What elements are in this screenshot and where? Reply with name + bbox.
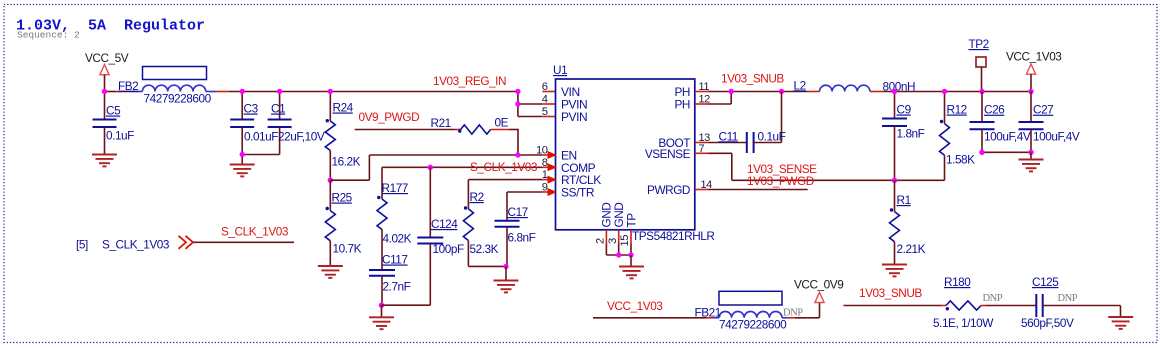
svg-text:1.8nF: 1.8nF <box>897 127 925 141</box>
net label S_CLK_1V03 on wire <box>221 225 289 239</box>
capacitor C27 <box>1019 92 1080 153</box>
subtitle sequence 2 <box>17 30 80 41</box>
wire snub to C11 <box>781 92 783 143</box>
capacitor C1 <box>268 92 325 155</box>
ferrite bead FB21 <box>695 291 804 331</box>
svg-text:1: 1 <box>542 169 548 181</box>
wire C3-C1 bottoms <box>242 154 279 156</box>
svg-text:R25: R25 <box>332 191 353 205</box>
svg-text:1V03_REG_IN: 1V03_REG_IN <box>433 74 506 88</box>
net label 1V03_PWGD <box>747 174 814 188</box>
wire 0V9_PWGD to R21 <box>355 129 456 131</box>
junction R24 top <box>328 89 333 94</box>
svg-text:R177: R177 <box>382 181 408 195</box>
net label 1V03_SNUB top <box>721 72 784 86</box>
svg-text:PVIN: PVIN <box>561 110 587 124</box>
junction PH <box>729 89 734 94</box>
svg-text:C27: C27 <box>1033 103 1053 117</box>
svg-text:52.3K: 52.3K <box>470 242 499 256</box>
ground for C5 <box>92 155 117 167</box>
svg-text:8: 8 <box>542 157 548 169</box>
net label 1V03_REG_IN <box>433 74 506 88</box>
resistor R180 <box>933 275 1003 330</box>
junction pin15 <box>628 252 633 257</box>
wire snub to R180 <box>844 305 942 307</box>
net label 0V9_PWGD <box>359 110 420 124</box>
power VCC_0V9 <box>794 278 843 303</box>
svg-text:15: 15 <box>619 235 631 247</box>
ground for R2 C17 <box>494 266 519 292</box>
svg-text:C117: C117 <box>382 253 408 267</box>
svg-text:VCC_1V03: VCC_1V03 <box>607 299 663 313</box>
wire VCC_1V03 to FB21 <box>593 317 706 319</box>
svg-text:Sequence: 2: Sequence: 2 <box>17 30 80 41</box>
svg-text:R21: R21 <box>431 116 451 130</box>
svg-text:800nH: 800nH <box>883 79 916 93</box>
svg-text:U1: U1 <box>553 63 567 77</box>
svg-text:R24: R24 <box>333 101 354 115</box>
svg-text:R12: R12 <box>947 103 967 117</box>
inductor L2 <box>794 78 1032 93</box>
svg-text:560pF,50V: 560pF,50V <box>1021 316 1074 330</box>
wire S_CLK_1V03 <box>193 241 294 243</box>
svg-text:9: 9 <box>542 182 548 194</box>
svg-text:1.58K: 1.58K <box>946 153 975 167</box>
svg-text:VCC_1V03: VCC_1V03 <box>1006 50 1062 64</box>
wire VSENSE net <box>695 153 945 180</box>
net label VCC_1V03 bottom <box>607 299 663 313</box>
capacitor C9 <box>882 92 925 181</box>
junction C27 bottom <box>1028 150 1033 155</box>
svg-text:R1: R1 <box>897 193 911 207</box>
svg-text:VCC_5V: VCC_5V <box>85 51 129 65</box>
junction C9 top <box>892 89 897 94</box>
junction VSENSE-C9-R1 <box>892 178 897 183</box>
wire C26-C27 bottoms <box>982 151 1031 153</box>
svg-text:2.21K: 2.21K <box>897 242 926 256</box>
svg-text:C1: C1 <box>271 102 285 116</box>
svg-text:R2: R2 <box>470 190 484 204</box>
svg-text:FB2: FB2 <box>118 79 138 93</box>
capacitor C124 <box>382 167 464 305</box>
svg-text:DNP: DNP <box>783 308 803 319</box>
U1 pin numbers bottom <box>595 235 632 247</box>
ground for R25 <box>318 266 343 278</box>
junction C117 bottom <box>379 303 384 308</box>
svg-text:PWRGD: PWRGD <box>647 183 690 197</box>
junction TP2-C26 <box>979 89 984 94</box>
junction PVIN <box>515 101 520 106</box>
svg-text:0.1uF: 0.1uF <box>758 129 786 143</box>
svg-text:C11: C11 <box>719 129 738 143</box>
net label 1V03_SNUB bottom <box>859 286 922 300</box>
resistor R177 <box>377 181 412 270</box>
svg-text:22uF,10V: 22uF,10V <box>278 130 325 144</box>
test point TP2 <box>969 37 989 92</box>
resistor R24 <box>325 92 360 181</box>
wire COMP net <box>382 167 551 194</box>
U1 pin numbers right <box>699 81 713 191</box>
svg-text:FB21: FB21 <box>695 306 721 320</box>
title <box>16 18 205 35</box>
wire R180 to C125 <box>986 305 1036 307</box>
svg-text:C5: C5 <box>106 104 121 118</box>
svg-text:L2: L2 <box>794 78 806 92</box>
svg-text:C26: C26 <box>984 103 1005 117</box>
ground for C117 <box>369 305 394 329</box>
wire PWRGD net <box>695 189 808 191</box>
svg-text:1V03_PWGD: 1V03_PWGD <box>747 174 814 188</box>
svg-text:VSENSE: VSENSE <box>645 147 691 161</box>
svg-text:0.1uF: 0.1uF <box>106 129 134 143</box>
U1 left pin names <box>561 85 601 200</box>
junction C17 bottom <box>503 264 508 269</box>
capacitor C5 <box>93 92 135 155</box>
power VCC_1V03 <box>1006 50 1062 92</box>
svg-text:100uF,4V: 100uF,4V <box>984 130 1031 144</box>
wire R21 to EN <box>517 130 519 156</box>
svg-text:SS/TR: SS/TR <box>561 186 595 200</box>
resistor R1 <box>890 180 926 264</box>
capacitor C26 <box>970 92 1031 153</box>
wire U1 bottom pins <box>606 230 631 255</box>
wire PH pins <box>695 92 808 105</box>
wire VIN branch verticals <box>518 92 556 117</box>
wire SS/TR net <box>507 192 551 220</box>
svg-text:S_CLK_1V03: S_CLK_1V03 <box>102 238 170 252</box>
svg-text:S_CLK_1V03: S_CLK_1V03 <box>470 160 538 174</box>
svg-text:4.02K: 4.02K <box>383 232 412 246</box>
svg-text:74279228600: 74279228600 <box>719 318 787 332</box>
capacitor C17 <box>495 205 536 266</box>
junction pin3 <box>616 252 621 257</box>
svg-text:10.7K: 10.7K <box>333 242 362 256</box>
ground for C3 C1 <box>230 155 255 177</box>
svg-text:TP: TP <box>624 213 638 228</box>
power VCC_5V <box>85 51 129 92</box>
svg-text:2.7nF: 2.7nF <box>383 280 411 294</box>
resistor R2 <box>463 190 506 266</box>
resistor R21 <box>431 116 519 135</box>
ground for U1 <box>619 255 644 278</box>
svg-text:3: 3 <box>607 238 619 244</box>
ferrite bead FB2 <box>116 67 228 106</box>
svg-text:DNP: DNP <box>1058 293 1078 304</box>
svg-text:VCC_0V9: VCC_0V9 <box>794 278 843 292</box>
capacitor C3 <box>230 92 278 155</box>
svg-text:DNP: DNP <box>983 293 1003 304</box>
capacitor C117 <box>369 253 411 306</box>
U1 right pin names <box>645 85 691 197</box>
ground right bottom <box>1108 317 1133 329</box>
U1 pin numbers left <box>536 81 548 194</box>
wire main input rail <box>105 91 556 93</box>
junction VCC_1V03-C27 <box>1028 89 1033 94</box>
capacitor C125 <box>1021 275 1078 330</box>
svg-text:10: 10 <box>536 145 548 157</box>
svg-text:1V03_SNUB: 1V03_SNUB <box>721 72 784 86</box>
svg-text:TPS54821RHLR: TPS54821RHLR <box>632 229 714 243</box>
U1 bottom pin names GND GND TP <box>600 203 639 228</box>
wire EN net <box>330 155 551 180</box>
op-amp U1 TPS54821RHLR body <box>553 63 714 243</box>
svg-text:0.01uF: 0.01uF <box>244 130 278 144</box>
svg-text:C17: C17 <box>508 205 528 219</box>
junction C3 bottom <box>240 152 245 157</box>
svg-text:100uF,4V: 100uF,4V <box>1033 130 1080 144</box>
junction EN-R21 <box>515 152 520 157</box>
U1 input arrows EN COMP RT/CLK SS/TR <box>548 151 558 196</box>
junction C1 top <box>277 89 282 94</box>
svg-text:TP2: TP2 <box>969 37 989 51</box>
resistor R12 <box>940 92 976 181</box>
junction C3 top <box>240 89 245 94</box>
svg-text:16.2K: 16.2K <box>332 155 361 169</box>
wire RT/CLK net <box>468 180 551 209</box>
svg-text:5: 5 <box>542 106 548 118</box>
svg-text:S_CLK_1V03: S_CLK_1V03 <box>221 225 289 239</box>
svg-text:0E: 0E <box>495 116 509 130</box>
svg-text:C125: C125 <box>1032 275 1059 289</box>
wire C125 to ground <box>1043 306 1121 318</box>
junction snub branch <box>779 89 784 94</box>
ground for C26 C27 <box>1019 152 1044 171</box>
wire FB21 to VCC_0V9 <box>795 303 820 318</box>
svg-text:100pF: 100pF <box>433 242 464 256</box>
svg-text:74279228600: 74279228600 <box>144 92 212 106</box>
svg-text:0V9_PWGD: 0V9_PWGD <box>359 110 420 124</box>
svg-text:2: 2 <box>595 238 607 244</box>
svg-text:[5]: [5] <box>76 238 88 252</box>
port [5] S_CLK_1V03 <box>76 236 193 252</box>
svg-text:6: 6 <box>542 81 548 93</box>
svg-text:C9: C9 <box>897 103 911 117</box>
svg-text:5.1E, 1/10W: 5.1E, 1/10W <box>933 316 994 330</box>
junction VIN <box>515 89 520 94</box>
svg-text:4: 4 <box>542 94 548 106</box>
ground for R1 <box>882 265 907 277</box>
svg-text:6.8nF: 6.8nF <box>508 231 536 245</box>
svg-text:R180: R180 <box>944 275 971 289</box>
net label 1V03_SENSE <box>747 162 817 176</box>
net label S_CLK_1V03 at COMP <box>470 160 538 174</box>
junction R24 bottom node <box>328 178 333 183</box>
junction COMP-C124 <box>428 165 433 170</box>
svg-text:PH: PH <box>675 98 691 112</box>
svg-text:1V03_SNUB: 1V03_SNUB <box>859 286 922 300</box>
junction VCC_5V node <box>102 89 107 94</box>
svg-text:C124: C124 <box>431 217 458 231</box>
junction C26 bottom <box>979 150 984 155</box>
junction R12 top <box>942 89 947 94</box>
resistor R25 <box>325 180 361 266</box>
capacitor C11 boot <box>695 129 786 153</box>
svg-text:C3: C3 <box>244 102 259 116</box>
